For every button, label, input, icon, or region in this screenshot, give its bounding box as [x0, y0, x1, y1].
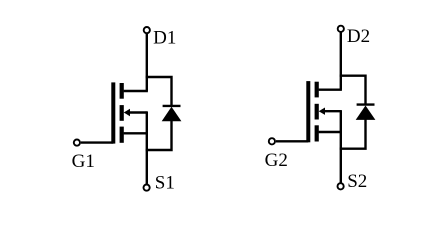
- node D1 terminal: [144, 27, 150, 33]
- node S1 terminal: [144, 185, 150, 191]
- svg-text:S2: S2: [347, 171, 367, 192]
- node G2 terminal: [269, 138, 275, 144]
- svg-text:G1: G1: [72, 151, 95, 172]
- wire Q2 drain to diode cathode: [340, 76, 366, 105]
- svg-text:D2: D2: [347, 26, 370, 47]
- svg-text:D1: D1: [153, 27, 176, 48]
- wire Q1 drain to diode cathode: [146, 77, 172, 106]
- wire Q2 gate lead: [276, 140, 308, 142]
- wire Q2 drain lead: [340, 32, 342, 89]
- svg-text:S1: S1: [155, 173, 175, 194]
- diode D_b2 (body diode): [356, 105, 376, 120]
- wire Q1 source to channel: [124, 132, 148, 134]
- wire Q2 source to channel: [319, 131, 342, 133]
- node S2 terminal: [338, 183, 344, 189]
- wire Q2 source vertical: [340, 110, 342, 182]
- transistor Q2 (N-channel MOSFET, right): [306, 81, 325, 142]
- wire diode D_b2 anode to source: [340, 119, 366, 149]
- diode D_b1 (body diode): [162, 106, 182, 121]
- node D2 terminal: [338, 26, 344, 32]
- wire Q1 drain lead: [146, 34, 148, 91]
- svg-text:G2: G2: [265, 150, 288, 171]
- transistor Q1 (N-channel MOSFET, left): [111, 82, 130, 143]
- wire Q1 body arrow to source: [129, 111, 147, 113]
- wire Q1 source vertical: [146, 111, 148, 183]
- wire Q2 body arrow to source: [324, 110, 341, 112]
- wire Q2 drain to channel: [319, 88, 342, 90]
- node G1 terminal: [74, 140, 80, 146]
- wire Q1 gate lead: [81, 141, 113, 143]
- wire diode D_b1 anode to source: [146, 120, 172, 150]
- wire Q1 drain to channel: [124, 90, 148, 92]
